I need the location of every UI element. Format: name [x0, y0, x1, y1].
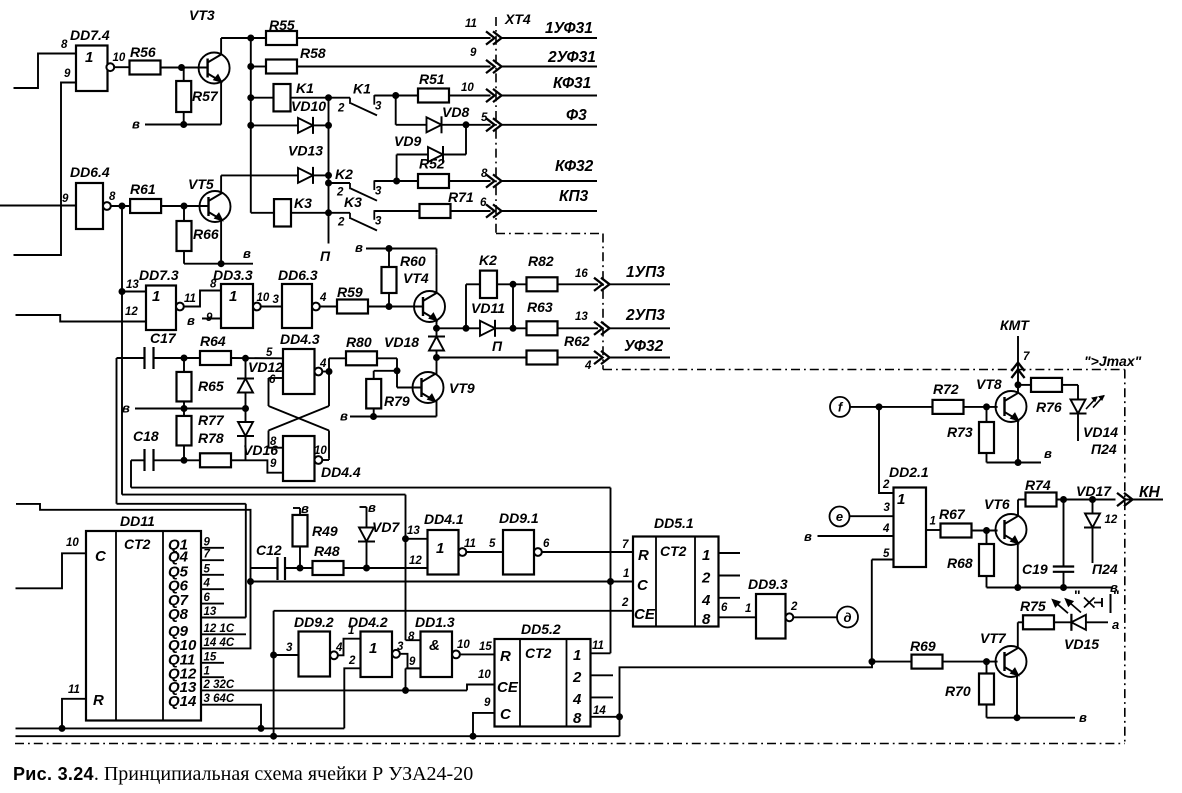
svg-text:14 4C: 14 4C	[204, 637, 235, 649]
svg-text:VD11: VD11	[471, 300, 505, 316]
svg-text:C19: C19	[1022, 561, 1048, 577]
svg-text:КН: КН	[1139, 484, 1161, 501]
svg-text:16: 16	[575, 268, 588, 280]
svg-text:R78: R78	[198, 430, 224, 446]
svg-text:в: в	[340, 409, 348, 424]
svg-text:2: 2	[621, 597, 629, 609]
svg-text:УФ32: УФ32	[624, 338, 664, 355]
svg-text:КМТ: КМТ	[1000, 317, 1030, 333]
svg-text:Ф3: Ф3	[566, 107, 587, 124]
svg-text:4: 4	[584, 360, 592, 372]
svg-text:10: 10	[314, 445, 327, 457]
svg-text:4: 4	[319, 358, 327, 370]
svg-text:K3: K3	[344, 194, 362, 210]
svg-text:VD10: VD10	[291, 98, 326, 114]
svg-text:DD7.3: DD7.3	[139, 267, 179, 283]
svg-text:DD7.4: DD7.4	[70, 27, 110, 43]
svg-text:1: 1	[623, 568, 629, 580]
svg-text:VD9: VD9	[394, 133, 421, 149]
svg-text:4: 4	[203, 578, 211, 590]
svg-text:в: в	[122, 401, 130, 416]
svg-text:12: 12	[1105, 514, 1118, 526]
svg-text:R74: R74	[1025, 477, 1051, 493]
svg-text:11: 11	[184, 293, 196, 305]
svg-text:2: 2	[790, 601, 798, 613]
svg-text:3: 3	[375, 101, 382, 113]
svg-text:VD15: VD15	[1064, 636, 1099, 652]
svg-text:C18: C18	[133, 428, 159, 444]
svg-text:DD6.3: DD6.3	[278, 267, 318, 283]
svg-text:а: а	[1112, 617, 1119, 632]
svg-text:Q14: Q14	[168, 693, 197, 710]
svg-text:7: 7	[622, 539, 629, 551]
svg-text:VD13: VD13	[288, 143, 323, 159]
svg-text:4: 4	[319, 292, 327, 304]
svg-text:4: 4	[335, 642, 343, 654]
svg-text:2: 2	[337, 103, 345, 115]
svg-text:в: в	[301, 501, 309, 516]
svg-text:2: 2	[882, 479, 890, 491]
svg-text:1: 1	[930, 516, 936, 528]
svg-text:VD7: VD7	[372, 519, 400, 535]
svg-text:7: 7	[1023, 351, 1030, 363]
svg-text:6: 6	[721, 602, 728, 614]
svg-text:R57: R57	[192, 88, 219, 104]
svg-text:3: 3	[397, 641, 404, 653]
svg-text:1: 1	[573, 647, 581, 664]
svg-text:K1: K1	[296, 80, 314, 96]
svg-text:DD9.1: DD9.1	[499, 510, 539, 526]
svg-text:R55: R55	[269, 17, 295, 33]
svg-text:VT3: VT3	[189, 7, 215, 23]
svg-text:VD16: VD16	[243, 442, 278, 458]
svg-text:K2: K2	[479, 252, 497, 268]
svg-text:в: в	[804, 529, 812, 544]
svg-text:КФ32: КФ32	[555, 158, 594, 175]
svg-text:8: 8	[408, 631, 415, 643]
svg-text:8: 8	[109, 191, 116, 203]
svg-text:4: 4	[701, 592, 711, 609]
svg-text:12 1C: 12 1C	[204, 623, 235, 635]
svg-text:VT6: VT6	[984, 496, 1010, 512]
svg-text:DD1.3: DD1.3	[415, 614, 455, 630]
svg-text:VT7: VT7	[980, 630, 1007, 646]
svg-text:6: 6	[480, 197, 487, 209]
svg-text:R: R	[93, 692, 104, 709]
svg-text:CT2: CT2	[124, 536, 151, 552]
svg-text:е: е	[836, 509, 843, 524]
svg-text:10: 10	[478, 669, 491, 681]
svg-text:3: 3	[375, 216, 382, 228]
svg-text:": "	[1113, 587, 1120, 603]
svg-text:VT8: VT8	[976, 376, 1002, 392]
svg-text:DD6.4: DD6.4	[70, 164, 110, 180]
svg-text:R51: R51	[419, 71, 445, 87]
svg-text:7: 7	[204, 549, 211, 561]
svg-text:DD5.2: DD5.2	[521, 621, 561, 637]
svg-text:1: 1	[204, 666, 210, 678]
svg-text:11: 11	[465, 18, 477, 30]
svg-text:1: 1	[436, 540, 444, 557]
svg-text:VT4: VT4	[403, 270, 429, 286]
svg-text:C: C	[500, 706, 512, 723]
svg-text:12: 12	[409, 555, 422, 567]
svg-text:1УФ31: 1УФ31	[545, 20, 593, 37]
svg-text:13: 13	[126, 279, 139, 291]
svg-text:9: 9	[64, 68, 71, 80]
svg-text:3: 3	[273, 294, 280, 306]
svg-text:2УП3: 2УП3	[625, 307, 665, 324]
svg-text:1УП3: 1УП3	[626, 264, 665, 281]
svg-text:9: 9	[409, 656, 416, 668]
svg-text:в: в	[1044, 446, 1052, 461]
svg-text:R68: R68	[947, 555, 973, 571]
svg-text:Q8: Q8	[168, 606, 189, 623]
svg-text:3: 3	[286, 642, 293, 654]
svg-text:9: 9	[470, 47, 477, 59]
svg-text:VD14: VD14	[1083, 424, 1118, 440]
svg-text:R: R	[638, 547, 649, 564]
svg-text:в: в	[368, 500, 376, 515]
svg-text:9: 9	[204, 536, 211, 548]
svg-text:11: 11	[464, 538, 476, 550]
svg-text:R58: R58	[300, 45, 326, 61]
svg-text:R76: R76	[1036, 399, 1062, 415]
svg-text:9: 9	[484, 697, 491, 709]
svg-text:П24: П24	[1091, 441, 1117, 457]
svg-text:R62: R62	[564, 333, 590, 349]
svg-text:6: 6	[269, 374, 276, 386]
svg-text:DD4.3: DD4.3	[280, 331, 320, 347]
svg-text:П24: П24	[1092, 561, 1118, 577]
svg-text:R80: R80	[346, 334, 372, 350]
svg-text:CT2: CT2	[525, 645, 552, 661]
svg-text:10: 10	[66, 537, 79, 549]
svg-text:5: 5	[489, 538, 496, 550]
svg-text:2: 2	[701, 570, 711, 587]
svg-text:R56: R56	[130, 44, 156, 60]
svg-text:DD2.1: DD2.1	[889, 464, 929, 480]
svg-text:в: в	[243, 246, 251, 261]
svg-text:13: 13	[204, 606, 217, 618]
svg-text:8: 8	[210, 279, 217, 291]
svg-text:&: &	[429, 637, 440, 654]
svg-text:DD5.1: DD5.1	[654, 515, 694, 531]
svg-text:2: 2	[348, 655, 356, 667]
svg-text:DD11: DD11	[120, 513, 155, 529]
svg-text:CT2: CT2	[660, 543, 687, 559]
svg-text:8: 8	[61, 39, 68, 51]
svg-text:VD12: VD12	[248, 359, 283, 375]
svg-text:10: 10	[257, 292, 270, 304]
svg-text:6: 6	[204, 592, 211, 604]
svg-text:R70: R70	[945, 683, 971, 699]
svg-text:П: П	[492, 338, 503, 354]
svg-text:2: 2	[336, 187, 344, 199]
svg-text:1: 1	[85, 49, 93, 66]
svg-text:1: 1	[229, 288, 237, 305]
svg-text:C12: C12	[256, 542, 282, 558]
svg-text:8: 8	[573, 710, 582, 727]
svg-text:П: П	[320, 248, 331, 264]
svg-text:R75: R75	[1020, 598, 1046, 614]
svg-text:КП3: КП3	[559, 188, 589, 205]
svg-text:4: 4	[882, 523, 890, 535]
svg-text:R66: R66	[193, 226, 219, 242]
svg-text:R63: R63	[527, 299, 553, 315]
svg-text:10: 10	[113, 52, 126, 64]
svg-text:9: 9	[270, 458, 277, 470]
svg-text:R: R	[500, 648, 511, 665]
svg-text:DD9.2: DD9.2	[294, 614, 334, 630]
svg-text:4: 4	[572, 691, 582, 708]
svg-text:14: 14	[593, 705, 606, 717]
svg-text:11: 11	[68, 684, 80, 696]
svg-text:C: C	[95, 548, 107, 565]
svg-text:">Jmax": ">Jmax"	[1084, 353, 1142, 369]
svg-text:VT9: VT9	[449, 380, 475, 396]
svg-text:VD8: VD8	[442, 104, 469, 120]
svg-text:1: 1	[152, 288, 160, 305]
svg-text:DD9.3: DD9.3	[748, 576, 788, 592]
svg-text:1: 1	[369, 640, 377, 657]
svg-text:10: 10	[461, 82, 474, 94]
svg-text:5: 5	[266, 347, 273, 359]
svg-text:в: в	[1079, 710, 1087, 725]
svg-text:8: 8	[702, 611, 711, 628]
svg-text:R71: R71	[448, 189, 474, 205]
svg-text:6: 6	[543, 538, 550, 550]
svg-text:2 32C: 2 32C	[203, 679, 235, 691]
svg-text:R79: R79	[384, 393, 410, 409]
svg-text:КФ31: КФ31	[553, 75, 591, 92]
svg-text:15: 15	[479, 641, 492, 653]
svg-text:R49: R49	[312, 523, 338, 539]
svg-text:д: д	[843, 610, 851, 625]
svg-text:XT4: XT4	[504, 11, 531, 27]
svg-text:K1: K1	[353, 81, 371, 97]
svg-text:1: 1	[745, 603, 751, 615]
svg-text:C17: C17	[150, 330, 177, 346]
svg-text:в: в	[187, 313, 195, 328]
svg-text:VD18: VD18	[384, 334, 419, 350]
svg-text:R60: R60	[400, 253, 426, 269]
svg-text:DD4.4: DD4.4	[321, 464, 361, 480]
svg-text:Рис. 3.24. Принципиальная схем: Рис. 3.24. Принципиальная схема ячейки Р…	[13, 763, 473, 785]
svg-text:R69: R69	[910, 638, 936, 654]
svg-text:2: 2	[572, 669, 582, 686]
svg-text:DD4.2: DD4.2	[348, 614, 388, 630]
svg-text:CE: CE	[634, 606, 656, 623]
svg-text:CE: CE	[497, 679, 519, 696]
svg-text:DD4.1: DD4.1	[424, 511, 464, 527]
svg-text:5: 5	[883, 548, 890, 560]
svg-text:15: 15	[204, 651, 217, 663]
svg-text:R65: R65	[198, 378, 224, 394]
svg-text:DD3.3: DD3.3	[213, 267, 253, 283]
svg-text:10: 10	[457, 639, 470, 651]
svg-text:C: C	[637, 577, 649, 594]
svg-text:1: 1	[897, 491, 905, 508]
svg-text:K3: K3	[294, 195, 312, 211]
svg-text:3: 3	[884, 502, 891, 514]
svg-text:13: 13	[407, 525, 420, 537]
svg-text:11: 11	[592, 640, 604, 652]
svg-text:2: 2	[337, 217, 345, 229]
svg-text:R72: R72	[933, 381, 959, 397]
svg-text:R59: R59	[337, 284, 363, 300]
svg-text:5: 5	[204, 563, 211, 575]
svg-text:3: 3	[375, 186, 382, 198]
svg-text:в: в	[132, 117, 140, 132]
svg-text:13: 13	[575, 311, 588, 323]
svg-text:R77: R77	[198, 412, 225, 428]
svg-text:12: 12	[125, 306, 138, 318]
svg-text:R64: R64	[200, 333, 226, 349]
svg-text:R67: R67	[939, 506, 966, 522]
svg-text:K2: K2	[335, 166, 353, 182]
svg-text:VD17: VD17	[1076, 483, 1112, 499]
svg-text:2УФ31: 2УФ31	[547, 49, 596, 66]
svg-text:в: в	[355, 240, 363, 255]
svg-text:1: 1	[702, 547, 710, 564]
svg-text:VT5: VT5	[188, 176, 214, 192]
svg-text:R82: R82	[528, 253, 554, 269]
svg-text:9: 9	[62, 193, 69, 205]
svg-text:": "	[1074, 587, 1081, 603]
svg-text:R52: R52	[419, 156, 445, 172]
svg-text:R61: R61	[130, 181, 156, 197]
svg-text:3 64C: 3 64C	[204, 693, 235, 705]
svg-text:R73: R73	[947, 424, 973, 440]
svg-text:R48: R48	[314, 543, 340, 559]
